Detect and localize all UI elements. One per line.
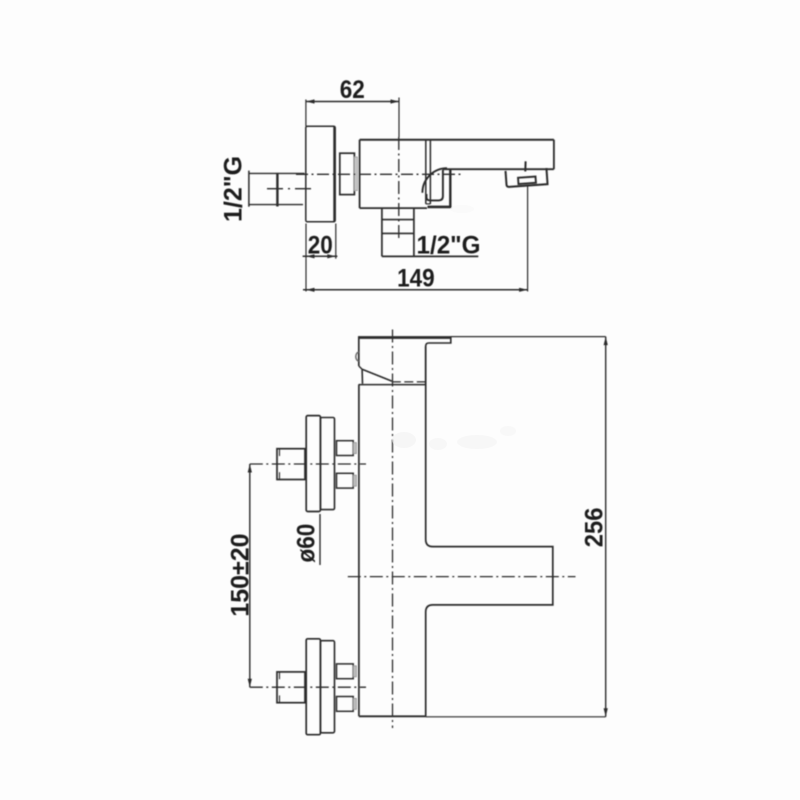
connection nut <box>340 153 355 194</box>
svg-text:150±20: 150±20 <box>227 533 255 616</box>
spout angled underside <box>359 366 426 384</box>
dim 149 <box>303 186 528 292</box>
tee horizontal centerline <box>348 576 576 578</box>
dim 62 right extension line <box>398 98 400 138</box>
phi60 leader line <box>319 514 321 565</box>
spout (side view) <box>443 140 554 170</box>
aerator at spout tip <box>506 168 548 187</box>
svg-text:20: 20 <box>308 231 333 259</box>
bottom outlet 1/2"G <box>382 208 478 256</box>
small bump on left edge <box>356 352 359 361</box>
connector centerline <box>267 188 312 190</box>
wall plate <box>306 126 335 222</box>
svg-text:62: 62 <box>340 76 365 104</box>
dim 150±20 <box>248 464 252 687</box>
washer <box>354 157 357 191</box>
svg-text:ø60: ø60 <box>292 524 320 563</box>
body column <box>359 385 427 717</box>
body vertical centerline <box>398 137 400 241</box>
dim 256 <box>426 337 608 717</box>
svg-text:149: 149 <box>397 264 435 292</box>
column vertical centerline <box>392 330 394 729</box>
top wall connection: hex nut <box>277 449 305 480</box>
mixer body <box>360 140 554 208</box>
svg-text:1/2"G: 1/2"G <box>220 156 248 222</box>
spout bar top (thick) <box>359 336 451 339</box>
bottom wall connection: eccentric union <box>337 664 357 711</box>
bottom wall connection: flange <box>306 639 334 735</box>
spout bar right step <box>426 336 451 384</box>
bottom wall connection: hex nut <box>277 672 305 703</box>
handle / body tee <box>426 346 553 716</box>
dim 62 left extension line <box>305 100 307 127</box>
bottom connection centerline <box>250 686 366 688</box>
diverter / waterway inside spout <box>422 168 451 208</box>
shower outlet connector 1/2"G <box>249 171 305 207</box>
top wall connection: flange <box>306 416 334 512</box>
aerator tick <box>524 161 526 171</box>
dim 62 dimension line <box>306 99 399 103</box>
svg-text:256: 256 <box>581 508 609 548</box>
svg-text:1/2"G: 1/2"G <box>417 232 481 259</box>
faint ghost smudges <box>392 205 516 450</box>
main horizontal centerline <box>296 173 464 175</box>
dim 20 <box>303 224 338 259</box>
spout bar left edge <box>358 336 360 366</box>
top wall connection: eccentric union <box>337 441 357 488</box>
top connection centerline <box>250 463 366 465</box>
